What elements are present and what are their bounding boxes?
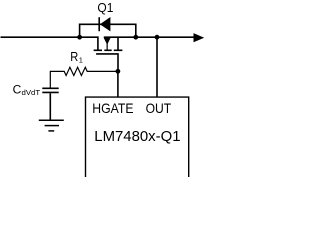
wire: output rail from Q1 drain to arrow [104, 36, 194, 38]
transistor Q1: channel contact bars [94, 49, 102, 51]
arrowhead: output to load [194, 33, 205, 42]
IC U1 LM7480x-Q1: box (open at bottom) [86, 97, 189, 177]
node: gate node dot (R1 / HGATE junction) [116, 69, 121, 74]
svg-text:1: 1 [79, 55, 83, 64]
svg-text:LM7480x-Q1: LM7480x-Q1 [94, 129, 180, 145]
node: junction dot at diode cathode tap [133, 35, 138, 40]
capacitor CdVdT: plates [42, 87, 58, 89]
diode D (body diode of Q1): cathode bar [98, 17, 100, 31]
wire: body-diode branch [80, 24, 136, 37]
wire: HGATE pin wire into IC [117, 71, 119, 97]
diode D (body diode of Q1): triangle [100, 17, 111, 31]
svg-text:OUT: OUT [146, 100, 172, 116]
svg-text:C: C [13, 83, 22, 97]
transistor Q1: gate bar and gate lead [96, 54, 118, 72]
transistor Q1: body arrow (points down to channel) [106, 38, 108, 50]
wire: OUT pin wire from output rail into IC [155, 35, 160, 40]
transistor Q1: drain stub [117, 37, 119, 49]
svg-text:HGATE: HGATE [92, 100, 133, 116]
resistor R1: zigzag [50, 67, 118, 87]
svg-text:dVdT: dVdT [22, 88, 41, 97]
svg-text:R: R [70, 50, 78, 64]
node: junction dot at diode anode tap [77, 35, 82, 40]
svg-text:Q1: Q1 [97, 0, 113, 15]
wire: input rail left segment into Q1 source [1, 37, 98, 49]
wire: capacitor to ground [49, 93, 51, 119]
ground [39, 119, 64, 121]
